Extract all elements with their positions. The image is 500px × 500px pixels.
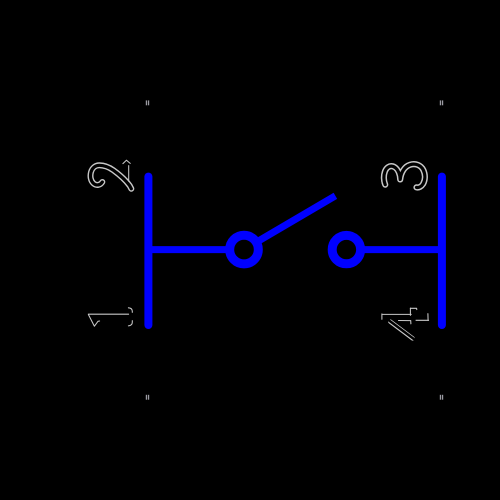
pin 3 endpoint marker <box>440 100 443 105</box>
wire right contact circle to right bar <box>359 246 442 253</box>
pin number 1 <box>88 308 132 326</box>
switch SW1 actuator lever <box>256 196 335 243</box>
pin number 3 <box>384 164 425 187</box>
pin number 2 <box>91 160 132 189</box>
pin 2 endpoint marker <box>146 100 149 105</box>
switch SW1 left contact bar <box>144 177 152 325</box>
pin number 4 <box>382 308 429 339</box>
switch SW1 right contact circle <box>332 235 360 263</box>
wire left bar to left contact circle <box>148 246 231 253</box>
switch SW1 left contact circle <box>230 235 259 264</box>
pin 1 endpoint marker <box>146 395 149 400</box>
switch SW1 right contact bar <box>438 177 446 325</box>
pin 4 endpoint marker <box>440 395 443 400</box>
